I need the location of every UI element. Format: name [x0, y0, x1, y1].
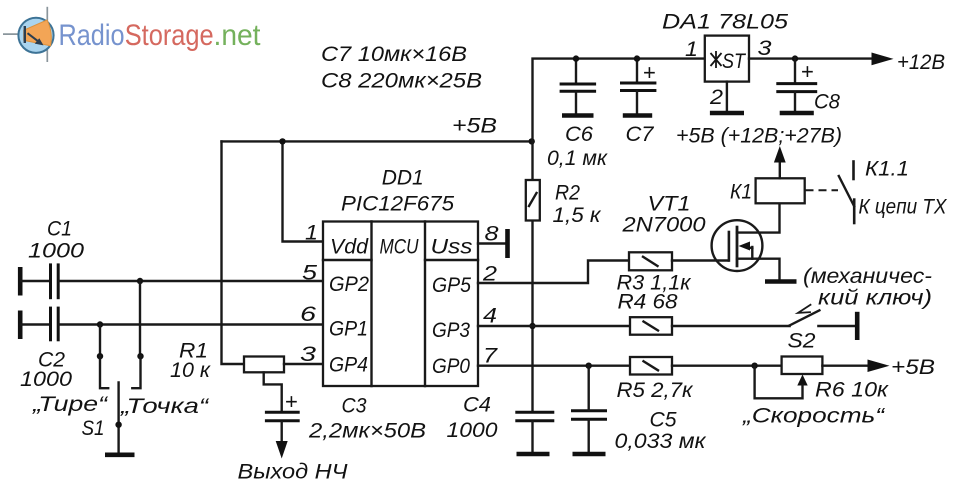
resistor R4 — [630, 317, 672, 335]
svg-text:C8 220мк×25В: C8 220мк×25В — [321, 70, 482, 93]
logo circle (transistor emblem) — [18, 18, 53, 53]
wire pin 7 GP0 to R5 — [478, 365, 630, 367]
wire S1 dot contact drop — [139, 281, 141, 356]
svg-text:2N7000: 2N7000 — [621, 214, 705, 237]
svg-text:R6 10к: R6 10к — [815, 379, 889, 402]
node R6 wiper junction — [751, 363, 757, 369]
svg-text:3: 3 — [300, 343, 316, 366]
arrow K1 supply up — [774, 146, 786, 163]
svg-text:DA1 78L05: DA1 78L05 — [662, 11, 788, 34]
ground C8 — [780, 111, 814, 116]
capacitor C1 — [49, 263, 52, 299]
node C8 rail junction — [792, 55, 798, 61]
svg-text:+5В (+12В;+27В): +5В (+12В;+27В) — [676, 125, 842, 148]
svg-text:ST: ST — [722, 50, 747, 73]
svg-text:К1: К1 — [730, 181, 752, 204]
svg-text:C7: C7 — [626, 123, 655, 146]
svg-text:C4: C4 — [463, 394, 491, 417]
svg-text:+5В: +5В — [452, 115, 497, 138]
node R2/GP3 junction — [529, 323, 535, 329]
svg-text:.net: .net — [214, 19, 262, 52]
svg-text:+5В: +5В — [891, 356, 935, 379]
svg-text:1000: 1000 — [28, 240, 84, 263]
logo orange horn shape — [24, 20, 52, 46]
ground VT1 source — [765, 279, 797, 284]
wire K1 to +5V arrow — [779, 160, 781, 178]
capacitor C2 input terminal — [18, 311, 23, 340]
wire C3 to output arrow — [281, 422, 283, 442]
wire S2 to terminal — [818, 325, 855, 327]
wire R2 bottom to C4 — [531, 221, 533, 413]
wire R1 tap to C3 — [264, 373, 282, 412]
svg-text:GP3: GP3 — [432, 319, 470, 342]
svg-text:PIC12F675: PIC12F675 — [341, 193, 454, 216]
logo transistor base bar — [24, 26, 26, 43]
wire C7 to ground — [636, 91, 638, 113]
wire C1 to pin 5 — [59, 280, 323, 282]
svg-text:4: 4 — [483, 305, 497, 328]
capacitor C6 lead — [575, 59, 577, 82]
capacitor C6 — [560, 83, 597, 86]
svg-text:C8: C8 — [814, 91, 840, 114]
svg-text:MCU: MCU — [380, 236, 420, 259]
svg-text:+: + — [801, 59, 814, 84]
transistor VT1 gate bar — [728, 232, 731, 261]
svg-text:3: 3 — [758, 37, 772, 60]
svg-text:кий ключ): кий ключ) — [818, 287, 932, 310]
resistor R1 — [244, 357, 284, 373]
wire C5 to ground — [588, 420, 590, 452]
wire R1 to pin 3 — [284, 363, 323, 365]
svg-text:1: 1 — [685, 38, 698, 61]
svg-text:S1: S1 — [82, 417, 105, 440]
svg-text:+: + — [285, 389, 298, 414]
svg-text:1000: 1000 — [447, 419, 498, 442]
ground C7 — [623, 113, 652, 118]
ground C4 — [517, 452, 550, 457]
svg-text:1,5 к: 1,5 к — [553, 204, 602, 227]
svg-text:C1: C1 — [47, 218, 72, 241]
wire C2 left lead — [21, 323, 50, 325]
capacitor C5 — [571, 409, 607, 412]
transistor VT1 channel bar — [736, 227, 739, 266]
node GP0/C5 junction — [586, 363, 592, 369]
transistor VT1 source lead — [737, 259, 780, 280]
svg-text:„Скорость“: „Скорость“ — [742, 405, 885, 428]
svg-text:5: 5 — [302, 262, 317, 285]
wire pin 2 GP5 to R3 — [478, 261, 629, 284]
node S1 dash contact — [97, 353, 103, 359]
svg-text:S2: S2 — [788, 330, 816, 353]
node C1/S1 junction — [137, 278, 143, 284]
ground terminal pin 8 — [505, 229, 510, 258]
transistor VT1 circle — [712, 220, 763, 271]
transistor VT1 drain lead — [737, 203, 780, 232]
arrow +12V — [872, 53, 894, 66]
wire C8 to ground — [794, 92, 796, 110]
contact K1.1 lever — [839, 176, 854, 206]
node C2/S1 junction — [97, 321, 103, 327]
svg-text:GP1: GP1 — [329, 318, 368, 341]
svg-text:Выход НЧ: Выход НЧ — [238, 461, 349, 484]
wire R6 wiper return — [755, 366, 803, 399]
node C7 rail junction — [634, 55, 640, 61]
contact K1.1 top terminal — [852, 162, 855, 180]
svg-text:+12В: +12В — [897, 51, 945, 74]
capacitor C2 — [49, 307, 52, 342]
wire Vdd drop — [283, 141, 324, 241]
svg-text:8: 8 — [485, 223, 499, 246]
transistor VT1 substrate arrow — [746, 246, 752, 249]
capacitor C8 — [776, 82, 817, 85]
ground S1 — [105, 452, 135, 457]
capacitor C7 — [620, 82, 656, 85]
svg-text:C5: C5 — [650, 409, 677, 432]
logo crosshair horizontal line — [3, 33, 28, 35]
switch S1 dot contact hook — [132, 356, 140, 388]
wire DA1 pin2 to ground — [726, 82, 728, 111]
ground C5 — [573, 452, 606, 457]
wire +5V rail horizontal — [222, 140, 533, 142]
svg-text:2,2мк×50В: 2,2мк×50В — [308, 420, 426, 443]
svg-text:„Точка“: „Точка“ — [120, 395, 210, 418]
wire C1 left lead — [21, 280, 50, 282]
svg-text:6: 6 — [300, 303, 316, 326]
capacitor C8 lead — [794, 59, 796, 82]
svg-text:0,033 мк: 0,033 мк — [615, 430, 707, 453]
wire R3 to VT1 gate — [672, 259, 728, 261]
wire left vertical to R1 — [222, 141, 245, 364]
resistor R5 — [630, 357, 672, 375]
contact K1.1 bottom terminal — [853, 200, 856, 223]
ground C6 — [562, 113, 594, 118]
svg-text:1000: 1000 — [20, 368, 72, 391]
capacitor C4 — [515, 411, 554, 414]
regulator DA1 78L05 box — [705, 36, 749, 82]
svg-text:0,1 мк: 0,1 мк — [547, 147, 608, 170]
node S1 pole junction — [115, 422, 121, 428]
wire C4 to ground — [531, 422, 533, 453]
node S1 dot contact — [137, 353, 143, 359]
svg-text:GP0: GP0 — [432, 355, 470, 378]
capacitor C7 lead — [636, 59, 638, 82]
regulator star symbol — [711, 51, 722, 68]
wire regulator input rail down to R2 — [533, 59, 705, 181]
svg-text:R4 68: R4 68 — [618, 291, 678, 314]
svg-text:1: 1 — [305, 222, 318, 245]
svg-text:GP2: GP2 — [329, 273, 369, 296]
svg-text:+: + — [643, 60, 656, 85]
svg-text:R5 2,7к: R5 2,7к — [617, 379, 694, 402]
svg-text:„Тире“: „Тире“ — [32, 393, 109, 416]
ground terminal S2 — [855, 312, 860, 340]
wire C2 to pin 6 — [59, 323, 323, 325]
capacitor C1 input terminal — [18, 267, 23, 296]
logo emitter arrow — [28, 33, 39, 41]
node +5V/Vdd junction — [279, 138, 285, 144]
ground DA1 pin2 — [710, 111, 744, 116]
node C6 rail junction — [573, 55, 579, 61]
switch S2 lever — [790, 310, 820, 325]
wire pin 4 GP3 to R4 — [478, 325, 630, 327]
svg-text:GP5: GP5 — [432, 274, 471, 297]
potentiometer R6 — [782, 357, 823, 375]
switch S1 dash contact hook — [100, 356, 108, 388]
switch S1 lever pole — [117, 383, 119, 454]
wire R5 to R6 — [672, 365, 782, 367]
svg-text:К цепи TX: К цепи TX — [859, 196, 948, 219]
svg-text:R2: R2 — [555, 182, 580, 205]
wire GP0 to C5 — [588, 366, 590, 410]
svg-text:C7 10мк×16В: C7 10мк×16В — [321, 43, 467, 66]
wire S1 dash contact drop — [99, 325, 101, 357]
svg-text:К1.1: К1.1 — [865, 158, 909, 181]
svg-text:GP4: GP4 — [329, 354, 368, 377]
arrow +5V right — [868, 360, 890, 373]
svg-text:DD1: DD1 — [382, 167, 424, 190]
logo crosshair vertical line — [46, 7, 48, 62]
relay K1 box — [756, 178, 805, 203]
capacitor C3 — [265, 411, 300, 414]
svg-text:VT1: VT1 — [648, 193, 691, 216]
potentiometer R6 wiper arrow — [797, 375, 807, 386]
wire R6 to +5V arrow — [822, 365, 868, 367]
svg-text:(механичес-: (механичес- — [803, 265, 932, 288]
node +5V/R2 rail junction — [529, 138, 535, 144]
wire DA1 output to +12V — [749, 57, 873, 59]
switch S2 lever arrowhead — [798, 305, 811, 313]
svg-text:2: 2 — [709, 86, 723, 109]
svg-text:C3: C3 — [342, 395, 367, 418]
wire C6 to ground — [575, 92, 577, 113]
resistor R2 — [526, 180, 540, 221]
svg-text:7: 7 — [483, 345, 499, 368]
svg-text:Radio: Radio — [59, 19, 125, 52]
arrow output down — [276, 441, 288, 459]
wire K1 mechanical dashed link — [806, 189, 839, 191]
svg-text:Vdd: Vdd — [330, 236, 369, 259]
svg-text:Uss: Uss — [431, 236, 474, 259]
wire pin 8 to ground terminal — [478, 242, 506, 244]
svg-text:Storage: Storage — [125, 19, 214, 52]
resistor R3 — [629, 252, 672, 270]
svg-text:10 к: 10 к — [170, 359, 211, 382]
op-amp DD1 box PIC12F675 — [323, 222, 478, 387]
svg-text:C6: C6 — [565, 123, 593, 146]
wire R4 to key S2 — [672, 325, 790, 327]
